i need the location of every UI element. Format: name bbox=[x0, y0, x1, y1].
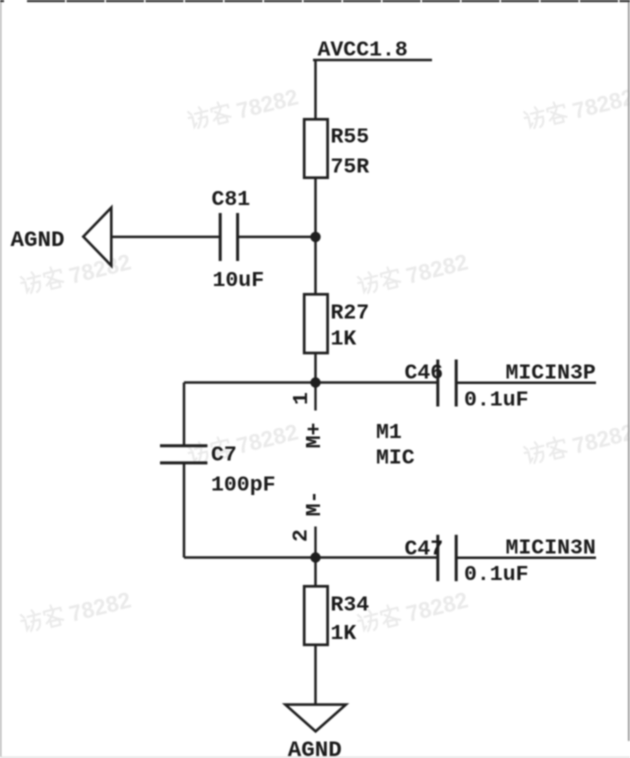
wire node2 to R34 bbox=[314, 558, 317, 587]
svg-text:MIC: MIC bbox=[376, 447, 415, 471]
svg-text:R34: R34 bbox=[331, 594, 370, 618]
svg-text:R27: R27 bbox=[331, 302, 370, 326]
svg-text:100pF: 100pF bbox=[211, 474, 276, 498]
svg-text:0.1uF: 0.1uF bbox=[464, 563, 529, 587]
capacitor C7 bbox=[160, 446, 207, 463]
resistor R27 bbox=[304, 294, 327, 353]
svg-text:M-: M- bbox=[303, 491, 327, 517]
wire R55 to R27 through node bbox=[314, 178, 317, 295]
ground AGND bottom symbol bbox=[285, 705, 346, 732]
svg-text:AGND: AGND bbox=[11, 227, 65, 253]
wire to MICIN3N bbox=[456, 557, 596, 560]
svg-text:75R: 75R bbox=[331, 156, 370, 180]
watermark bbox=[523, 83, 630, 135]
wire C81 to node bbox=[238, 236, 317, 239]
svg-text:C47: C47 bbox=[405, 538, 444, 562]
capacitor C81 bbox=[220, 213, 237, 261]
resistor R34 bbox=[304, 586, 327, 645]
wire C7 branch bottom to node 2 and to C47 bbox=[184, 556, 437, 559]
page left edge line bbox=[0, 2, 2, 758]
wire rail corner down to R55 bbox=[314, 60, 317, 120]
watermark bbox=[356, 248, 470, 300]
svg-text:R55: R55 bbox=[331, 126, 370, 150]
svg-text:M1: M1 bbox=[376, 421, 402, 445]
node junction pin2 bbox=[310, 552, 320, 562]
page right edge line bbox=[628, 2, 630, 741]
watermark bbox=[187, 418, 301, 470]
pin 2 stub bbox=[314, 527, 316, 558]
svg-text:C7: C7 bbox=[211, 444, 237, 468]
svg-text:1K: 1K bbox=[331, 622, 357, 646]
svg-text:MICIN3P: MICIN3P bbox=[506, 362, 596, 386]
capacitor C46 bbox=[438, 360, 456, 407]
page top edge line bbox=[0, 0, 630, 2]
pin 1 stub bbox=[314, 383, 316, 411]
wire R27 to node M+ bbox=[314, 353, 317, 383]
capacitor C47 bbox=[438, 535, 456, 581]
watermark bbox=[356, 586, 470, 638]
svg-text:C46: C46 bbox=[405, 362, 444, 386]
svg-text:0.1uF: 0.1uF bbox=[464, 389, 529, 413]
watermark bbox=[187, 83, 301, 135]
page bottom edge line bbox=[0, 756, 630, 758]
svg-text:2: 2 bbox=[290, 529, 314, 542]
wire AVCC1.8 rail bbox=[313, 59, 432, 62]
svg-text:10uF: 10uF bbox=[213, 269, 265, 293]
svg-text:C81: C81 bbox=[212, 188, 251, 212]
watermark bbox=[523, 418, 630, 470]
svg-text:AGND: AGND bbox=[288, 737, 342, 758]
svg-text:1: 1 bbox=[290, 392, 314, 405]
watermark bbox=[19, 586, 133, 638]
node junction R55/R27/C81 bbox=[310, 232, 320, 242]
wire to MICIN3P bbox=[456, 382, 596, 385]
resistor R55 bbox=[304, 119, 327, 177]
svg-text:MICIN3N: MICIN3N bbox=[506, 537, 596, 561]
watermark bbox=[19, 248, 133, 300]
svg-text:M+: M+ bbox=[303, 423, 327, 449]
svg-text:1K: 1K bbox=[331, 328, 357, 352]
wire AGND to C81 bbox=[110, 236, 220, 239]
node junction pin1 bbox=[310, 377, 320, 387]
wire R34 to AGND bbox=[314, 645, 317, 704]
wire C7 bottom down bbox=[183, 463, 186, 558]
wire C7 branch left down bbox=[183, 383, 186, 447]
ground AGND left symbol bbox=[83, 208, 111, 266]
wire C7 branch top / node to C46 bbox=[184, 381, 437, 384]
